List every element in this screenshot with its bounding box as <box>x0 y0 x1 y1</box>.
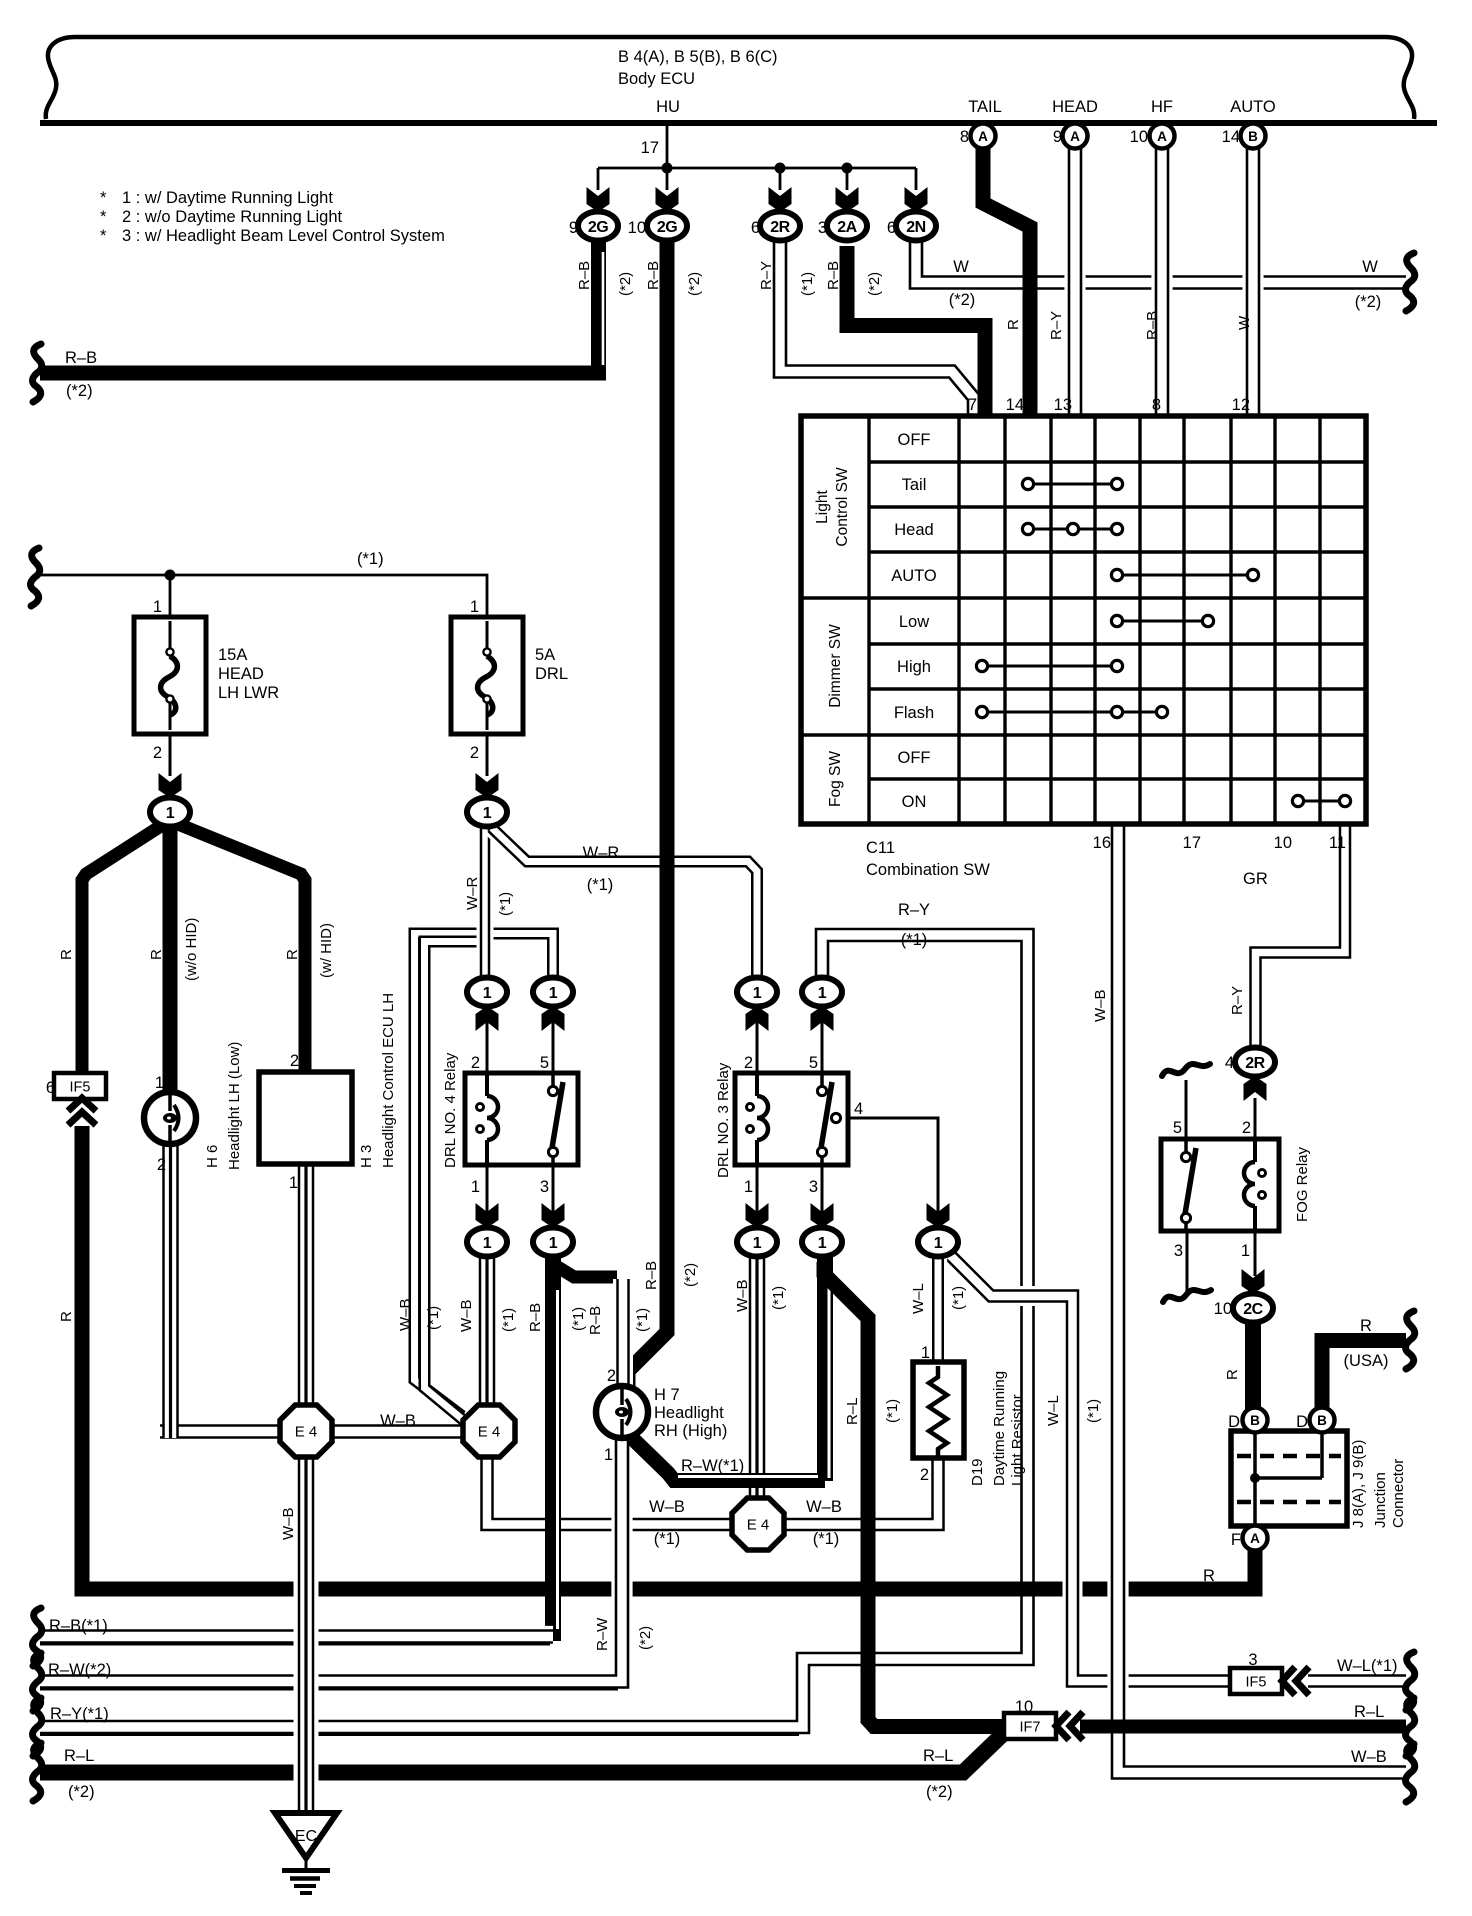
connector ovals on relay outputs <box>467 1228 507 1257</box>
svg-text:(*2): (*2) <box>68 1783 95 1801</box>
svg-text:W–L(*1): W–L(*1) <box>1337 1657 1398 1675</box>
svg-text:2: 2 <box>744 1054 753 1072</box>
svg-text:EC: EC <box>295 1828 317 1845</box>
svg-text:5: 5 <box>809 1054 818 1072</box>
wire branch from W-R down-left-down to E4 (P2) <box>425 942 484 1425</box>
svg-text:1: 1 <box>483 805 492 822</box>
wire R-W (*2): H7 pin1 stub <box>615 1437 630 1452</box>
svg-text:14: 14 <box>1222 128 1240 146</box>
svg-text:W: W <box>1236 315 1253 330</box>
connector oval 10 2C <box>1233 1294 1273 1323</box>
svg-text:W–B: W–B <box>280 1507 297 1540</box>
svg-text:(*1): (*1) <box>950 1286 967 1310</box>
bulb H7 Headlight RH (High) <box>596 1386 648 1438</box>
wire W-B triple E4 down to EC ground <box>294 1456 319 1816</box>
connector oval 1 under HEAD fuse <box>150 798 190 827</box>
wire W-B pair comb SW pin 16 down to right edge <box>1118 826 1406 1773</box>
wire W-B (*1) triple relay3 pin1 to E4 <box>747 1258 768 1500</box>
svg-text:9: 9 <box>569 219 578 237</box>
svg-text:Fog SW: Fog SW <box>827 751 844 807</box>
svg-text:9: 9 <box>1053 128 1062 146</box>
svg-text:A: A <box>1250 1531 1260 1546</box>
svg-text:R–W: R–W <box>594 1617 611 1651</box>
fuse 5A DRL <box>451 617 523 734</box>
wire fuse DRL lead to oval <box>486 734 489 776</box>
svg-text:R–B(*1): R–B(*1) <box>49 1617 108 1635</box>
wire R-B (*2) thick from 2G(9) to left edge <box>591 240 606 366</box>
wire R thick TAIL from Body ECU to comb SW pin 14 <box>983 146 1030 416</box>
wire W-B (*1) triple relay4 pin1 to E4 <box>479 1258 496 1406</box>
svg-text:W–B: W–B <box>380 1412 416 1430</box>
svg-text:H 3: H 3 <box>358 1145 375 1168</box>
wire fog relay pin1 lead <box>1254 1231 1257 1276</box>
squiggle torn edge R-B (*2) left <box>33 344 42 402</box>
svg-text:1: 1 <box>483 985 492 1002</box>
svg-text:10: 10 <box>1274 834 1292 852</box>
svg-text:(*2): (*2) <box>682 1263 699 1287</box>
svg-text:(*1): (*1) <box>770 1286 787 1310</box>
wire W-L (*1) from IF5 chevron to right edge <box>1308 1671 1406 1691</box>
svg-text:GR: GR <box>1243 870 1268 888</box>
svg-text:H 7: H 7 <box>654 1386 680 1404</box>
svg-text:J 8(A), J 9(B): J 8(A), J 9(B) <box>1350 1440 1367 1528</box>
wire R-L thick from IF7 to right edge <box>1080 1720 1406 1734</box>
wire R thick from 2C to junction connector B <box>1245 1320 1261 1410</box>
svg-text:HF: HF <box>1151 98 1173 116</box>
svg-text:TAIL: TAIL <box>968 98 1002 116</box>
arrow into 2C oval <box>1242 1269 1265 1294</box>
svg-text:Body ECU: Body ECU <box>618 70 695 88</box>
svg-text:14: 14 <box>1006 396 1024 414</box>
wire R-B (*1) thick from relay4 pin 3 down to bottom bus <box>545 1250 561 1641</box>
wire W pair AUTO connector to comb SW pin 12 <box>1242 148 1263 416</box>
svg-text:11: 11 <box>1329 834 1346 852</box>
bulb H6 Headlight LH (Low) <box>144 1092 196 1144</box>
svg-text:W–B: W–B <box>649 1498 685 1516</box>
svg-text:Junction: Junction <box>1372 1472 1389 1528</box>
svg-text:(*1): (*1) <box>634 1308 651 1332</box>
wire fog relay pin3 stub <box>1186 1222 1189 1293</box>
svg-text:R–B: R–B <box>1144 311 1161 340</box>
svg-text:6: 6 <box>751 219 760 237</box>
svg-text:AUTO: AUTO <box>891 567 937 585</box>
svg-text:(*1): (*1) <box>799 272 816 296</box>
svg-text:R: R <box>1360 1317 1372 1335</box>
svg-text:D: D <box>1228 1413 1240 1431</box>
svg-text:1: 1 <box>166 805 175 822</box>
svg-text:3: 3 <box>809 1178 818 1196</box>
svg-text:IF5: IF5 <box>70 1080 91 1096</box>
svg-text:E 4: E 4 <box>747 1517 770 1534</box>
svg-text:2: 2 <box>157 1156 166 1174</box>
wire W-R pair from DRL fuse down to DRL NO.4 relay pin 2 <box>477 827 494 988</box>
svg-text:W–B: W–B <box>1351 1748 1387 1766</box>
svg-text:2: 2 <box>920 1466 929 1484</box>
svg-text:1: 1 <box>155 1074 164 1092</box>
svg-text:(*1): (*1) <box>497 892 514 916</box>
svg-text:(USA): (USA) <box>1344 1352 1389 1370</box>
svg-text:1: 1 <box>289 1174 298 1192</box>
svg-text:R–Y: R–Y <box>758 261 775 290</box>
svg-text:AUTO: AUTO <box>1230 98 1276 116</box>
connector circle TAIL 8 A <box>971 124 996 149</box>
svg-text:IF7: IF7 <box>1020 1720 1041 1736</box>
svg-text:*: * <box>100 208 107 226</box>
svg-text:(*1): (*1) <box>425 1306 442 1330</box>
svg-text:1: 1 <box>549 985 558 1002</box>
wire R-B (*1) pair from branch corner down to H7 pin 2 <box>613 1279 633 1386</box>
svg-text:W–B: W–B <box>397 1298 414 1331</box>
svg-text:Headlight Control ECU LH: Headlight Control ECU LH <box>380 993 397 1168</box>
svg-text:Flash: Flash <box>894 704 934 722</box>
svg-text:(*2): (*2) <box>926 1783 953 1801</box>
wire loop from relay4 pin5 oval up-left-down to E4 (P1) <box>415 934 554 1417</box>
svg-text:C11: C11 <box>866 839 895 857</box>
svg-text:1: 1 <box>753 985 762 1002</box>
svg-text:2R: 2R <box>1245 1055 1265 1072</box>
svg-text:1: 1 <box>818 1235 827 1252</box>
svg-text:W: W <box>953 258 969 276</box>
svg-text:(*1): (*1) <box>357 550 384 568</box>
svg-text:(*1): (*1) <box>587 876 614 894</box>
svg-text:DRL: DRL <box>535 665 568 683</box>
wire R (USA) thick from right edge to junction connector B <box>1322 1341 1406 1411</box>
svg-text:16: 16 <box>1093 834 1111 852</box>
wire relay3 pin3 lead <box>821 1165 824 1236</box>
svg-text:R–B: R–B <box>576 261 593 290</box>
svg-text:2A: 2A <box>837 219 857 236</box>
svg-text:High: High <box>897 658 931 676</box>
svg-text:1 : w/ Daytime Running Light: 1 : w/ Daytime Running Light <box>122 189 333 207</box>
svg-text:R–Y: R–Y <box>1048 311 1065 340</box>
wire W-B triple H6 pin2 down to E4 row <box>162 1146 179 1438</box>
svg-text:12: 12 <box>1232 396 1250 414</box>
svg-text:1: 1 <box>921 1344 930 1362</box>
svg-text:Headlight LH (Low): Headlight LH (Low) <box>226 1042 243 1170</box>
node junction dots on branch <box>662 163 673 174</box>
svg-text:1: 1 <box>604 1446 613 1464</box>
wire W-B (*1) E4 to resistor pin 2 row <box>487 1454 758 1525</box>
wire W-L pair relay3 pin4 oval to resistor pin 1 <box>929 1256 948 1364</box>
svg-text:(*2): (*2) <box>1355 293 1382 311</box>
wire R-W (*2): H7 pin1 down then left to edge <box>40 1450 622 1682</box>
ground octagon E4 left <box>280 1405 332 1457</box>
wire W-B row H6 to E4 <box>160 1424 306 1439</box>
svg-text:7: 7 <box>968 396 977 414</box>
svg-text:5: 5 <box>1173 1119 1182 1137</box>
svg-text:1: 1 <box>818 985 827 1002</box>
svg-text:R: R <box>1005 319 1022 330</box>
connector oval 6 2R <box>760 212 800 241</box>
svg-text:R–L: R–L <box>844 1397 861 1425</box>
svg-text:5: 5 <box>540 1054 549 1072</box>
ground octagon E4 right <box>732 1498 784 1550</box>
svg-text:W–B: W–B <box>806 1498 842 1516</box>
svg-text:3: 3 <box>818 219 827 237</box>
svg-text:ON: ON <box>902 793 927 811</box>
svg-text:W–B: W–B <box>734 1279 751 1312</box>
relay box DRL NO.4 Relay <box>465 1073 578 1165</box>
squiggle torn edge W (*2) right <box>1406 253 1415 311</box>
svg-text:H 6: H 6 <box>204 1145 221 1168</box>
wire R-Y pair HEAD connector to comb SW pin 13 <box>1064 148 1085 416</box>
svg-text:R–Y: R–Y <box>1229 986 1246 1015</box>
svg-text:(*1): (*1) <box>1085 1399 1102 1423</box>
svg-text:HEAD: HEAD <box>218 665 264 683</box>
svg-text:W–L: W–L <box>1045 1395 1062 1426</box>
svg-text:17: 17 <box>641 139 659 157</box>
wire fuse supply line from left edge (*1) <box>40 575 487 617</box>
svg-text:1: 1 <box>934 1235 943 1252</box>
svg-text:10: 10 <box>1130 128 1148 146</box>
svg-text:1: 1 <box>549 1235 558 1252</box>
connector oval 3 2A <box>827 212 867 241</box>
arrow into fuse oval left <box>159 773 182 798</box>
junction connector circle F A bottom <box>1243 1526 1268 1551</box>
svg-text:2: 2 <box>471 1054 480 1072</box>
wire: HU pin 17 drop from Body ECU <box>666 124 669 170</box>
svg-text:*: * <box>100 189 107 207</box>
wire fog relay pin5 stub <box>1185 1080 1188 1148</box>
squiggle stub below fog pin 3 <box>1163 1290 1211 1302</box>
svg-text:HU: HU <box>656 98 680 116</box>
arrows into relay top ovals (pointing up) <box>476 1006 499 1031</box>
svg-text:DRL NO. 4 Relay: DRL NO. 4 Relay <box>442 1052 459 1168</box>
svg-text:FOG Relay: FOG Relay <box>1294 1146 1311 1222</box>
svg-text:R: R <box>58 949 75 960</box>
svg-text:A: A <box>978 129 988 144</box>
wire relay3 pin2 lead <box>756 1006 759 1073</box>
svg-text:(*1): (*1) <box>813 1530 840 1548</box>
arrows into relay bottom ovals <box>476 1203 499 1228</box>
svg-text:2G: 2G <box>657 219 677 236</box>
svg-text:R–Y: R–Y <box>898 901 930 919</box>
svg-text:8: 8 <box>1152 396 1161 414</box>
chevrons below IF5 <box>68 1098 96 1111</box>
wire fuse HEAD lead to oval <box>169 734 172 776</box>
svg-text:A: A <box>1070 129 1080 144</box>
svg-text:W–R: W–R <box>583 844 620 862</box>
svg-text:W: W <box>1362 258 1378 276</box>
svg-text:R: R <box>1224 1369 1241 1380</box>
svg-text:1: 1 <box>471 1178 480 1196</box>
wire R-L (*1) thick from relay3 pin3 to IF7 <box>824 1262 1002 1727</box>
wire R-B (*1) thick branch from relay4 pin3 wire to H7 pin 2 <box>553 1264 617 1277</box>
svg-text:OFF: OFF <box>898 749 931 767</box>
ground symbol EC <box>275 1813 337 1858</box>
ECU box H3 Headlight Control ECU LH <box>259 1072 352 1164</box>
svg-text:B: B <box>1317 1413 1327 1428</box>
svg-text:1: 1 <box>1241 1242 1250 1260</box>
connector circle AUTO 14 B <box>1241 124 1266 149</box>
wire W (*2) pair from 2N to right edge <box>916 240 1406 283</box>
wire relay3 pin1 lead <box>756 1165 759 1236</box>
svg-text:15A: 15A <box>218 646 247 664</box>
junction connector circle D B right <box>1310 1408 1335 1433</box>
svg-text:10: 10 <box>1015 1698 1033 1716</box>
squiggle stub above fog pin 5 <box>1162 1064 1210 1076</box>
svg-text:R–B: R–B <box>643 1261 660 1290</box>
svg-text:R–W(*1): R–W(*1) <box>681 1457 744 1475</box>
svg-text:4: 4 <box>854 1100 863 1118</box>
svg-text:1: 1 <box>483 1235 492 1252</box>
connector ovals on relay inputs <box>467 978 507 1007</box>
svg-text:Light Resistor: Light Resistor <box>1009 1394 1026 1486</box>
svg-text:3: 3 <box>1248 1651 1257 1669</box>
wire relay3 pin4 to oval <box>850 1118 938 1236</box>
svg-text:(*2): (*2) <box>949 291 976 309</box>
svg-text:(*1): (*1) <box>901 931 928 949</box>
wire R-Y jog from comb SW pin 11 to 2R <box>1256 826 1346 1046</box>
fuse 15A HEAD LH LWR <box>134 617 206 734</box>
svg-text:R–B: R–B <box>587 1306 604 1335</box>
wire relay4 pin1 lead <box>486 1165 489 1236</box>
svg-text:3: 3 <box>1174 1242 1183 1260</box>
wire relay4 pin2 lead <box>486 1006 489 1073</box>
svg-text:2 : w/o Daytime Running Light: 2 : w/o Daytime Running Light <box>122 208 343 226</box>
svg-text:2: 2 <box>153 744 162 762</box>
wire W-R (*1) branch to DRL NO.3 relay pin 2 <box>492 828 757 988</box>
table contact rows <box>1028 483 1117 486</box>
svg-text:R–L: R–L <box>923 1747 953 1765</box>
svg-text:(w/o HID): (w/o HID) <box>183 918 200 981</box>
svg-text:A: A <box>1157 129 1167 144</box>
combination switch table C11 <box>801 416 1366 824</box>
arrow into fuse oval right <box>476 773 499 798</box>
connector oval 10 2G <box>647 212 687 241</box>
svg-text:Tail: Tail <box>902 476 927 494</box>
svg-text:Connector: Connector <box>1390 1459 1407 1528</box>
svg-text:HEAD: HEAD <box>1052 98 1098 116</box>
svg-text:Low: Low <box>899 613 929 631</box>
wire R thick trident center from fuse oval to H6 <box>163 822 178 1094</box>
relay box DRL NO.3 Relay <box>735 1073 848 1165</box>
arrow into 2R oval <box>1244 1076 1267 1101</box>
wire R thick from IF5 down and along bottom to junction connector A <box>82 1126 1255 1589</box>
svg-text:8: 8 <box>960 128 969 146</box>
svg-text:R–B: R–B <box>527 1303 544 1332</box>
wire R-Y (*1) long path: relay3 pin5 - up - right - down - left - bottom bus <box>40 935 1028 1727</box>
svg-text:R–Y(*1): R–Y(*1) <box>50 1705 109 1723</box>
ground octagon E4 mid <box>463 1405 515 1457</box>
svg-text:B 4(A), B 5(B), B 6(C): B 4(A), B 5(B), B 6(C) <box>618 48 778 66</box>
svg-text:Daytime Running: Daytime Running <box>991 1371 1008 1486</box>
svg-text:1: 1 <box>744 1178 753 1196</box>
svg-text:E 4: E 4 <box>295 1424 318 1441</box>
svg-text:B: B <box>1250 1413 1260 1428</box>
connector box IF7 (10) <box>1004 1713 1056 1739</box>
FOG relay <box>1161 1139 1279 1231</box>
svg-text:3: 3 <box>540 1178 549 1196</box>
svg-text:2N: 2N <box>906 219 925 236</box>
svg-text:R: R <box>148 949 165 960</box>
connector box IF5 (3) right <box>1230 1668 1282 1694</box>
svg-text:W–B: W–B <box>458 1299 475 1332</box>
wire R-Y (*1) from 2R down into combination SW pin 7 <box>780 240 974 416</box>
svg-text:R–L: R–L <box>64 1747 94 1765</box>
svg-text:R–W(*2): R–W(*2) <box>48 1661 111 1679</box>
svg-text:2R: 2R <box>770 219 790 236</box>
svg-text:E 4: E 4 <box>478 1424 501 1441</box>
junction connector J8(A) J9(B) <box>1231 1431 1347 1526</box>
svg-text:RH (High): RH (High) <box>654 1422 727 1440</box>
svg-text:6: 6 <box>887 219 896 237</box>
wire R thick trident right branch to H3 pin 2 <box>173 822 305 1072</box>
connector oval 4 2R <box>1235 1048 1275 1077</box>
svg-text:(*2): (*2) <box>66 382 93 400</box>
svg-text:DRL NO. 3 Relay: DRL NO. 3 Relay <box>715 1062 732 1178</box>
svg-text:Control SW: Control SW <box>834 467 851 547</box>
svg-text:2: 2 <box>470 744 479 762</box>
wire R thick trident left branch to IF5 <box>82 822 167 1077</box>
svg-text:D19: D19 <box>969 1458 986 1486</box>
connector box IF5 (6) <box>54 1073 106 1099</box>
squiggle torn edge fuse feed left <box>31 548 40 606</box>
svg-text:*: * <box>100 227 107 245</box>
svg-text:F: F <box>1231 1531 1241 1549</box>
arrows into 2G/2G/2R/2A/2N ovals <box>587 187 610 212</box>
svg-text:10: 10 <box>628 219 646 237</box>
svg-text:(*2): (*2) <box>617 272 634 296</box>
svg-text:(*2): (*2) <box>686 272 703 296</box>
connector oval 9 2G <box>578 212 618 241</box>
wire relay4 pin5 lead <box>552 1006 555 1073</box>
svg-text:5A: 5A <box>535 646 555 664</box>
svg-text:2C: 2C <box>1243 1301 1263 1318</box>
svg-text:2: 2 <box>607 1367 616 1385</box>
svg-text:(*2): (*2) <box>637 1626 654 1650</box>
svg-text:R: R <box>58 1311 75 1322</box>
svg-text:6: 6 <box>46 1079 55 1097</box>
svg-text:17: 17 <box>1183 834 1201 852</box>
svg-text:Headlight: Headlight <box>654 1404 724 1422</box>
svg-text:W–B: W–B <box>1092 989 1109 1022</box>
connector oval 6 2N <box>896 212 936 241</box>
svg-text:R–L: R–L <box>1354 1703 1384 1721</box>
connector circle HEAD 9 A <box>1063 124 1088 149</box>
wire W-B pin16 overpass patches <box>1107 1570 1128 1608</box>
wire R-B (*2) thick from 2G(10) down to H7 pin 2 <box>628 240 667 1388</box>
svg-text:OFF: OFF <box>898 431 931 449</box>
svg-text:1: 1 <box>753 1235 762 1252</box>
svg-text:Head: Head <box>894 521 933 539</box>
svg-text:LH LWR: LH LWR <box>218 684 279 702</box>
junction connector circle D B left <box>1243 1408 1268 1433</box>
svg-text:(*2): (*2) <box>866 272 883 296</box>
wire R-W thick pair from relay3 pin3 down to H7 (R-W *1) <box>817 1250 833 1481</box>
wire: branch bus to 2G/2R/2A/2N connectors <box>598 167 916 170</box>
wire fog relay pin2 lead <box>1254 1098 1257 1139</box>
svg-text:4: 4 <box>1225 1054 1234 1072</box>
svg-text:1: 1 <box>470 598 479 616</box>
wire R-B thick from 2A to comb SW pin 7 area <box>847 246 985 416</box>
svg-text:Combination SW: Combination SW <box>866 861 990 879</box>
svg-text:R: R <box>1203 1567 1215 1585</box>
Body ECU banner <box>75 37 1414 119</box>
svg-text:Dimmer SW: Dimmer SW <box>827 624 844 708</box>
wire R-B pair HF connector to comb SW pin 8 <box>1151 148 1172 416</box>
svg-text:Light: Light <box>814 490 831 524</box>
svg-text:(*1): (*1) <box>654 1530 681 1548</box>
connector oval 1 under DRL fuse <box>467 798 507 827</box>
connector circle HF 10 A <box>1150 124 1175 149</box>
svg-text:B: B <box>1248 129 1258 144</box>
svg-text:(*1): (*1) <box>500 1308 517 1332</box>
svg-text:W–L: W–L <box>910 1283 927 1314</box>
svg-text:13: 13 <box>1054 396 1072 414</box>
svg-text:2: 2 <box>1242 1119 1251 1137</box>
svg-text:R: R <box>284 949 301 960</box>
